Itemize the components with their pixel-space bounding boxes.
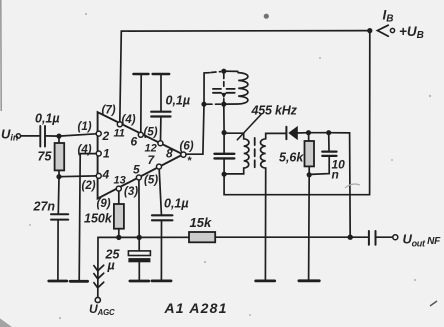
capacitor 0.1u pin12	[151, 111, 170, 113]
core dashes T2	[254, 138, 256, 167]
node T2 bottom junction	[222, 172, 227, 177]
pin 8 circle output	[181, 152, 186, 157]
svg-text:µ: µ	[107, 259, 115, 273]
trimmer arrow head	[221, 93, 227, 98]
svg-text:0,1µ: 0,1µ	[164, 197, 189, 211]
node T1 top junction	[221, 69, 226, 74]
pin 7 circle	[157, 164, 162, 169]
AGC wire down	[97, 237, 99, 297]
node T1 left junction	[201, 102, 206, 107]
pin 5 circle	[136, 175, 141, 180]
node T1 bottom junction	[221, 102, 226, 107]
pin 11 circle	[117, 122, 122, 127]
trimmer dashed link bottom	[223, 99, 225, 102]
wire to output cap	[350, 236, 368, 238]
wire C1 to node A	[46, 135, 59, 137]
wire node B down to 27n	[57, 177, 60, 214]
capacitor 25u electrolytic	[138, 237, 140, 251]
svg-text:5,6k: 5,6k	[279, 151, 304, 165]
svg-text:8: 8	[166, 147, 173, 161]
svg-text:0,1µ: 0,1µ	[166, 94, 191, 108]
wire cap to terminal	[377, 236, 393, 238]
ground bar 0.1u	[152, 279, 171, 282]
wire pin 12 up to C 0.1u	[160, 118, 162, 141]
ground bar secondary	[256, 279, 275, 282]
pin 1 circle	[96, 151, 101, 156]
svg-text:*: *	[187, 155, 192, 167]
feedback wire pin11 up and across	[120, 31, 370, 122]
pin 2 circle	[96, 131, 101, 136]
output wire pin 8	[186, 104, 204, 154]
wire det3 to ground	[308, 175, 311, 281]
svg-text:(5): (5)	[144, 175, 158, 187]
AGC chevron arrows	[94, 265, 104, 271]
svg-text:5: 5	[133, 163, 140, 177]
trimmer capacitor plates	[213, 88, 221, 90]
svg-text:1: 1	[103, 147, 110, 161]
ground bar det	[299, 279, 319, 282]
svg-text:13: 13	[114, 175, 126, 187]
svg-text:2: 2	[102, 129, 110, 143]
svg-text:6: 6	[131, 135, 138, 149]
svg-text:A1 A281: A1 A281	[164, 300, 228, 316]
resistor 5.6k	[308, 133, 310, 141]
node IB junction	[367, 28, 372, 33]
wire input to C1	[21, 135, 40, 137]
resistor 15k	[189, 232, 215, 242]
pin 4 circle	[96, 173, 101, 178]
455kHz pointer	[237, 115, 261, 140]
svg-text:(4): (4)	[122, 114, 136, 126]
wire pin 7 to 0.1u	[159, 169, 161, 214]
wire diode to node	[297, 132, 308, 134]
coil L1 tank	[224, 71, 248, 104]
shield dashed top	[211, 71, 221, 74]
trimmer dashed link top	[223, 74, 225, 87]
node A junction	[56, 134, 61, 139]
diode detector	[285, 127, 287, 140]
pin 13 circle	[116, 186, 121, 191]
svg-text:(2): (2)	[82, 180, 96, 192]
resistor 150k	[114, 204, 124, 229]
shield bracket T1	[204, 73, 210, 105]
wire 27n to ground	[57, 221, 59, 281]
scan speck br	[430, 301, 437, 306]
wire det2 to corner down to output	[329, 133, 351, 238]
wire node A down	[58, 136, 60, 143]
wire pin 6 up to rail bar	[140, 75, 142, 132]
wire to node det2	[309, 132, 329, 134]
wire node A to pin 2	[59, 134, 96, 136]
svg-text:(4): (4)	[78, 144, 92, 156]
output terminal	[393, 235, 398, 240]
wire pin 5 down	[138, 180, 140, 237]
ground bar 27n	[49, 280, 67, 283]
svg-text:(5): (5)	[144, 127, 158, 139]
svg-text:150k: 150k	[84, 212, 113, 226]
node det3 junction	[307, 172, 312, 177]
wire 15k to output node	[215, 236, 350, 238]
ground bar pin1	[70, 280, 87, 283]
svg-text:455 kHz: 455 kHz	[251, 104, 298, 118]
svg-text:75: 75	[38, 150, 53, 164]
svg-text:(6): (6)	[180, 141, 194, 153]
scan smudge bottom left	[0, 317, 12, 327]
scan squiggle	[345, 184, 360, 188]
wire C to rail bar	[160, 75, 162, 110]
wire T1 to T2	[223, 104, 225, 133]
node AGC1 junction	[116, 235, 121, 240]
node AGC2 junction	[137, 235, 142, 240]
IB arrow	[377, 25, 388, 36]
svg-text:27n: 27n	[33, 200, 56, 214]
AGC terminal	[95, 297, 100, 302]
capacitor 0.1u pin7	[152, 214, 172, 216]
scan speck	[264, 14, 269, 19]
UB terminal	[390, 28, 394, 32]
node T2 top junction	[222, 130, 227, 135]
scan edge line left	[0, 0, 2, 111]
secondary coil T2	[260, 133, 285, 280]
capacitor output coupling	[368, 231, 370, 245]
wire pin 13 to 150k	[118, 191, 120, 204]
svg-text:11: 11	[114, 128, 125, 140]
svg-text:(9): (9)	[97, 198, 111, 210]
capacitor 10n	[328, 133, 330, 151]
capacitor 27n	[51, 213, 68, 215]
pin 12 circle	[158, 141, 163, 146]
svg-text:15k: 15k	[190, 215, 212, 230]
AGC output line	[98, 236, 116, 238]
resistor 75	[55, 143, 65, 170]
svg-text:4: 4	[102, 168, 110, 182]
UB supply vertical wire	[369, 31, 371, 195]
node out junction	[348, 235, 353, 240]
primary coil T2	[224, 133, 249, 174]
svg-text:(1): (1)	[78, 121, 92, 133]
shield dashed bottom	[207, 103, 221, 105]
input terminal Uin	[16, 134, 20, 138]
op-amp triangle A281	[98, 112, 183, 198]
rail bar pin12	[153, 73, 170, 75]
svg-text:0,1µ: 0,1µ	[35, 112, 60, 126]
wire pin 1 to ground	[79, 154, 96, 281]
svg-text:(3): (3)	[124, 186, 138, 198]
svg-text:n: n	[332, 168, 339, 182]
wire node B to pin 4	[59, 175, 96, 178]
node B junction below 75	[56, 174, 61, 179]
node det1 junction	[306, 130, 311, 135]
ground bar 25u	[130, 280, 149, 283]
pin 6 circle	[138, 132, 143, 137]
svg-text:(7): (7)	[102, 105, 116, 117]
rail bar pin6	[133, 73, 148, 75]
capacitor T2 tank	[223, 133, 225, 153]
capacitor C 0.1u input	[39, 126, 41, 147]
wire T2 bottom to UB rail	[224, 174, 370, 195]
node det2 junction	[326, 130, 331, 135]
